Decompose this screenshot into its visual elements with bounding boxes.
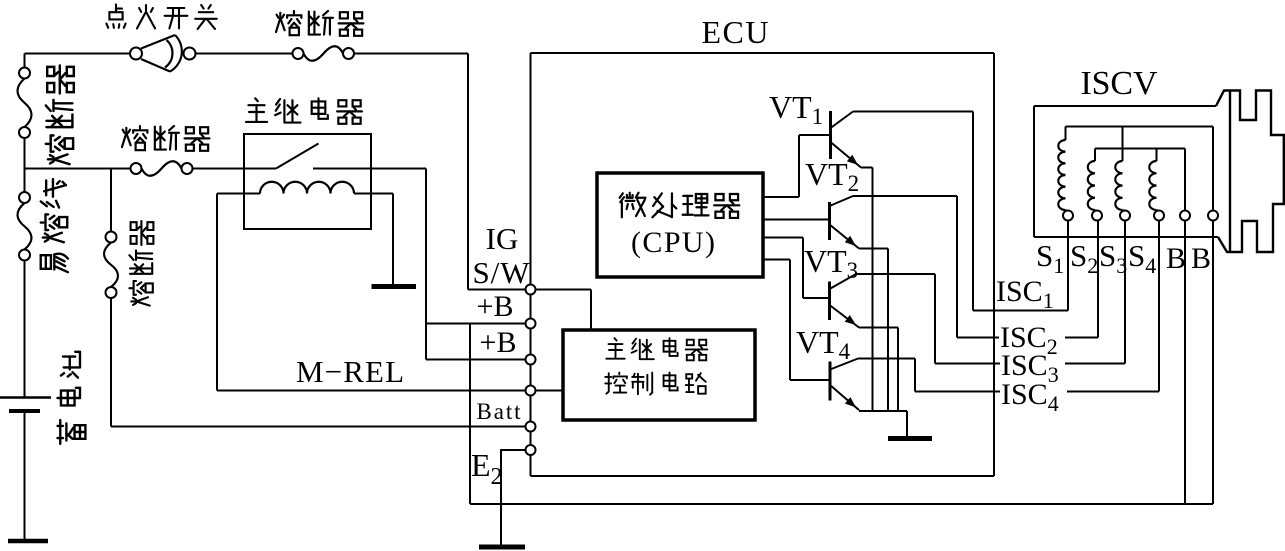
ISCV terminal S1 <box>1063 211 1073 221</box>
svg-text:VT4: VT4 <box>796 324 851 364</box>
wire CPU out1 to VT1 base <box>763 196 799 198</box>
label bg ISC4 <box>1000 383 1067 411</box>
svg-text:B: B <box>1191 242 1211 275</box>
battery bottom bar <box>8 539 48 544</box>
ignition switch symbol 点火开关 <box>141 35 182 72</box>
label 主继电器 main relay <box>246 98 267 122</box>
ISCV coil 4 <box>1149 161 1156 210</box>
relay control box 主继电器控制电路 <box>563 330 755 420</box>
svg-text:ISCV: ISCV <box>1081 65 1158 102</box>
label bg ISC2 <box>999 322 1065 350</box>
wire ISC4 <box>915 391 1159 393</box>
wire top rail (switch to fuse F1) <box>196 53 293 55</box>
wire left column (bottom) <box>24 261 26 398</box>
label 熔断器 fuse F2 (vertical) <box>46 66 74 165</box>
wire relay coil to ground <box>392 194 394 285</box>
transistor VT4 base bar <box>829 362 832 401</box>
ECU terminal Batt <box>526 422 536 432</box>
battery 蓄电池 positive plate <box>0 396 51 399</box>
ECU box left edge <box>530 53 532 285</box>
ISCV coil 2 <box>1088 161 1095 210</box>
wire CPU out2 to VT2 base <box>763 219 828 221</box>
ISCV bus2 (S2/S4/B) <box>1095 148 1185 150</box>
wire B1 to bottom rail <box>1184 221 1186 505</box>
ISCV terminal S4 <box>1154 211 1164 221</box>
CPU box 微处理器 <box>597 173 763 277</box>
wire bus2 to coil4 <box>1156 149 1158 162</box>
wire fuse F4 column (bottom) <box>110 298 112 427</box>
wire B2 to bottom rail <box>1212 221 1214 505</box>
transistor VT4 collector <box>830 359 858 370</box>
label bg ISC3 <box>1000 351 1065 379</box>
ISCV coil 3 <box>1115 161 1122 210</box>
svg-text:ECU: ECU <box>702 14 769 50</box>
svg-text:+B: +B <box>480 326 517 359</box>
wire ISC2 <box>957 337 1098 339</box>
svg-text:B: B <box>1166 242 1186 275</box>
label 易熔线 fusible link (vertical) <box>41 179 68 272</box>
ISCV terminal S3 <box>1120 211 1130 221</box>
transistor VT3 base bar <box>828 282 831 321</box>
emitter common rail <box>859 410 907 412</box>
ECU terminal +B (1) <box>526 319 536 329</box>
wire ECU bottom rail to B terminals <box>470 503 1213 505</box>
wire VT3 emitter to rail <box>859 327 898 329</box>
wire second rail (fuse to relay contact) <box>193 168 277 170</box>
svg-text:VT3: VT3 <box>804 243 858 283</box>
battery negative lead <box>24 411 26 539</box>
fuse F4 熔断器 (vertical) <box>104 243 118 288</box>
wire rail to ground <box>906 411 908 437</box>
wire VT2 emitter to rail <box>859 248 888 250</box>
wire VT1 collector drop to ISC1 <box>972 112 974 311</box>
ECU terminal E2 <box>526 445 536 455</box>
wire VT1 emitter to rail <box>861 167 873 169</box>
svg-text:S3: S3 <box>1099 238 1127 278</box>
wire fuse F4 column (top) <box>110 169 112 232</box>
wire left column (middle) <box>24 138 26 192</box>
svg-text:S2: S2 <box>1070 238 1098 278</box>
svg-text:ISC1: ISC1 <box>996 275 1054 313</box>
wire top rail (fuse F1 to ECU drop) <box>354 53 468 55</box>
wire IG S/W to control box <box>536 289 592 291</box>
svg-text:VT1: VT1 <box>769 89 823 129</box>
ECU terminal links <box>530 295 532 319</box>
wire E2 to right edge <box>531 475 995 477</box>
ECU box right edge <box>993 53 995 476</box>
ground bar (transistors) <box>888 436 932 441</box>
ISCV connector outline <box>1216 91 1284 253</box>
wire E2 to chassis ground <box>500 449 526 451</box>
wire CPU out3 to VT3 base <box>763 237 803 239</box>
svg-text:+B: +B <box>477 290 514 323</box>
relay coil (4 humps) <box>260 182 354 194</box>
transistor VT2 emitter <box>830 225 860 249</box>
label 微处理器 CPU <box>620 193 646 218</box>
wire ISC1 <box>973 310 1068 312</box>
wire ECU lower-left vertical <box>469 324 471 505</box>
ECU terminal M-REL <box>526 386 536 396</box>
svg-text:M−REL: M−REL <box>296 354 404 389</box>
wire top rail (battery column to ignition switch) <box>25 53 131 55</box>
wire M-REL horizontal <box>217 390 526 392</box>
label 蓄电池 battery (vertical) <box>58 352 86 444</box>
wire +B lower <box>426 359 526 361</box>
label 点火开关 ignition switch <box>106 4 125 27</box>
svg-text:E2: E2 <box>471 447 503 490</box>
ISCV terminal B (2) <box>1208 211 1218 221</box>
wire bus1 to coil3 <box>1122 127 1124 162</box>
wire vertical drop to IG S/W <box>467 54 469 290</box>
ground bar (relay coil) <box>372 284 417 289</box>
transistor VT1 emitter <box>831 142 862 168</box>
transistor VT1 base bar <box>829 111 832 159</box>
wire ISC3 <box>935 363 1125 365</box>
wire VT4 collector drop to ISC4 <box>914 359 916 392</box>
svg-text:IG: IG <box>486 221 519 256</box>
svg-text:S/W: S/W <box>473 255 531 290</box>
transistor VT2 collector <box>830 196 854 206</box>
wire left column (top) <box>24 54 26 68</box>
ECU box top edge <box>531 52 995 54</box>
ISCV bus1 (S1/S3/B) <box>1066 126 1214 128</box>
svg-text:S1: S1 <box>1036 238 1064 278</box>
fusible link 易熔线 in left column <box>18 203 32 250</box>
wire VT2 collector drop to ISC2 <box>956 196 958 338</box>
svg-text:(CPU): (CPU) <box>631 226 715 259</box>
wire second rail (left) <box>25 168 131 170</box>
transistor VT4 emitter <box>830 385 859 410</box>
ISCV coil 1 <box>1058 140 1065 210</box>
wire second rail right stub to +B drop <box>313 168 426 170</box>
transistor VT3 collector <box>830 274 857 289</box>
svg-text:S4: S4 <box>1128 238 1156 278</box>
relay coil left lead <box>217 193 260 195</box>
ISCV terminal S2 <box>1092 211 1102 221</box>
label 控制电路 (control box line2) <box>605 373 627 394</box>
fuse F1 on top rail 熔断器 <box>304 46 344 61</box>
wire E2 drop <box>530 455 532 476</box>
label 主继电器 (control box line1) <box>606 338 624 359</box>
battery negative plate <box>9 409 40 413</box>
transistor VT1 collector <box>831 112 854 129</box>
wire M-REL stub to control box <box>536 390 564 392</box>
fuse F2 in left column 熔断器 (vertical) <box>18 79 32 128</box>
ECU terminal IG S/W <box>526 285 536 295</box>
ISCV terminal B (1) <box>1180 211 1190 221</box>
ISCV connector inner vertical <box>1229 91 1231 253</box>
label 熔断器 fuse F4 (vertical) <box>129 221 153 306</box>
relay contact blade <box>276 144 319 169</box>
wire CPU out4 to VT4 base <box>763 259 790 261</box>
main relay K1 box 主继电器 <box>244 134 371 229</box>
wire +B upper <box>426 323 526 325</box>
wire VT3 collector drop to ISC3 <box>934 274 936 364</box>
ISCV box <box>1033 106 1035 237</box>
wire IG S/W terminal stub <box>468 289 526 291</box>
wire relay contact to +B terminals <box>425 169 427 360</box>
transistor VT2 base bar <box>828 202 831 240</box>
wire Batt rail <box>111 426 526 428</box>
ground bar (E2) <box>479 545 525 550</box>
ECU terminal +B (2) <box>526 355 536 365</box>
fuse F3 on second rail 熔断器 <box>142 161 182 176</box>
svg-text:Batt: Batt <box>477 399 522 424</box>
label 熔断器 fuse F1 <box>276 11 301 35</box>
relay coil right lead <box>354 193 393 195</box>
wire M-REL vertical <box>216 194 218 391</box>
transistor VT3 emitter <box>830 305 860 328</box>
label 熔断器 fuse F3 <box>122 126 147 150</box>
